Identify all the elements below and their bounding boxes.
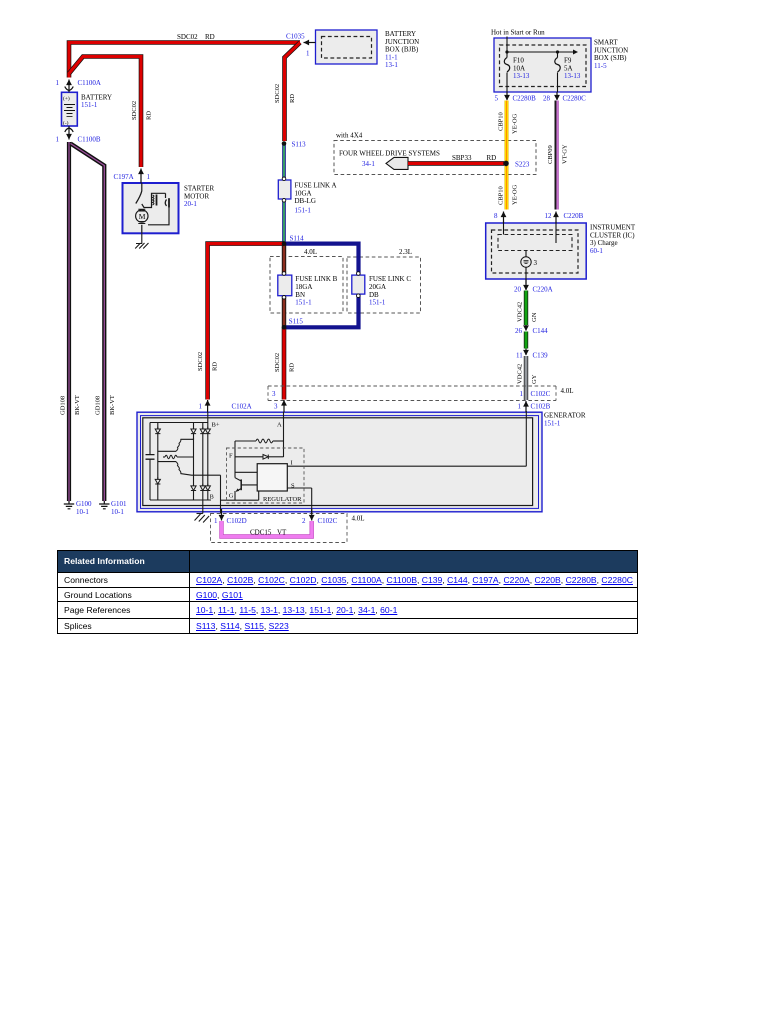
svg-text:SDC02: SDC02 — [197, 352, 204, 371]
svg-text:CBP10: CBP10 — [498, 112, 505, 131]
svg-text:151-1: 151-1 — [295, 206, 312, 214]
svg-text:3: 3 — [274, 403, 278, 411]
svg-text:SDC02: SDC02 — [177, 33, 198, 41]
svg-text:12: 12 — [545, 212, 553, 220]
BJB label — [385, 30, 419, 69]
svg-text:C1100B: C1100B — [78, 136, 101, 144]
svg-text:4.0L: 4.0L — [304, 248, 317, 256]
svg-text:8: 8 — [494, 212, 498, 220]
svg-text:F: F — [229, 453, 233, 460]
generator field coil and regulator wires — [203, 411, 527, 514]
svg-text:C144: C144 — [533, 327, 549, 335]
svg-text:10GA: 10GA — [295, 189, 312, 197]
svg-text:S115: S115 — [289, 318, 304, 326]
svg-text:JUNCTION: JUNCTION — [385, 38, 419, 46]
svg-text:151-1: 151-1 — [369, 299, 386, 307]
svg-text:5: 5 — [495, 95, 499, 103]
svg-text:REGULATOR: REGULATOR — [263, 496, 302, 503]
svg-text:GN: GN — [531, 312, 538, 322]
wire DB loop S114 to fuse link C to S115 — [284, 244, 359, 328]
svg-text:RD: RD — [289, 94, 296, 103]
connector C102A pin 3 — [281, 400, 287, 412]
related information table — [57, 550, 638, 634]
svg-text:11: 11 — [516, 352, 523, 360]
svg-text:C102B: C102B — [531, 403, 551, 411]
svg-text:1: 1 — [147, 173, 151, 181]
svg-text:FUSE LINK B: FUSE LINK B — [295, 275, 337, 283]
svg-text:C220A: C220A — [533, 286, 553, 294]
battery B box — [62, 92, 78, 126]
svg-text:3: 3 — [534, 259, 538, 267]
generator terminal labels — [210, 422, 295, 501]
svg-text:MOTOR: MOTOR — [184, 192, 209, 200]
svg-text:20GA: 20GA — [369, 283, 386, 291]
connector C1100A — [65, 80, 73, 93]
svg-text:Hot in Start or Run: Hot in Start or Run — [491, 29, 545, 37]
svg-text:10-1: 10-1 — [76, 508, 89, 516]
regulator diode — [263, 455, 268, 460]
svg-text:151-1: 151-1 — [81, 101, 98, 109]
svg-text:C1035: C1035 — [286, 33, 305, 41]
svg-text:151-1: 151-1 — [544, 419, 561, 427]
instrument cluster box — [486, 223, 587, 279]
svg-text:18GA: 18GA — [295, 283, 312, 291]
svg-text:A: A — [277, 422, 282, 429]
regulator dashed box — [227, 448, 305, 503]
svg-text:60-1: 60-1 — [590, 247, 603, 255]
svg-text:10A: 10A — [513, 64, 525, 72]
svg-text:20-1: 20-1 — [184, 200, 197, 208]
svg-text:RD: RD — [146, 111, 153, 120]
svg-text:SMART: SMART — [594, 39, 618, 47]
ground G100 — [64, 500, 92, 516]
battery junction box BJB — [316, 30, 378, 64]
svg-text:G: G — [229, 493, 234, 500]
connector C102C bottom — [309, 509, 315, 521]
svg-text:CBP09: CBP09 — [547, 145, 554, 164]
svg-text:DB: DB — [369, 291, 379, 299]
connector C144 — [523, 325, 529, 331]
svg-text:26: 26 — [515, 327, 523, 335]
connector C197A — [138, 169, 144, 184]
svg-text:1: 1 — [306, 50, 310, 58]
wire CBP09 VT SJB to IC — [554, 101, 558, 210]
svg-text:FUSE LINK C: FUSE LINK C — [369, 275, 411, 283]
splice S223 — [503, 161, 530, 169]
svg-text:F9: F9 — [564, 57, 572, 65]
connector C2280B — [504, 92, 510, 101]
IC label — [590, 224, 636, 255]
svg-text:F10: F10 — [513, 57, 524, 65]
svg-text:FOUR WHEEL DRIVE SYSTEMS: FOUR WHEEL DRIVE SYSTEMS — [339, 150, 440, 158]
svg-text:B+: B+ — [212, 422, 220, 429]
generator label — [544, 412, 586, 428]
connector C1035 — [304, 40, 316, 46]
svg-text:SDC02: SDC02 — [131, 101, 138, 120]
IC internal wires — [504, 222, 557, 285]
starter ground — [135, 233, 148, 248]
svg-text:S114: S114 — [290, 235, 305, 243]
svg-text:13-13: 13-13 — [513, 72, 530, 80]
wire GN C144 to C139 — [524, 332, 528, 349]
wire SDC02 RD battery to BJB — [69, 43, 300, 78]
svg-text:3: 3 — [272, 390, 276, 398]
svg-text:11-1: 11-1 — [385, 53, 398, 61]
svg-text:BOX (SJB): BOX (SJB) — [594, 54, 627, 62]
4.0L dashed box at fuse link B — [270, 248, 343, 313]
svg-text:28: 28 — [543, 95, 551, 103]
IC pin 8 arrow — [501, 212, 507, 224]
wire VDC42 GN IC to C144 — [524, 291, 528, 326]
svg-text:2: 2 — [302, 517, 306, 525]
wire SDC02 RD branch to starter — [69, 57, 141, 168]
svg-text:STARTER: STARTER — [184, 185, 214, 193]
svg-text:C197A: C197A — [114, 173, 134, 181]
fuse F10 — [504, 52, 530, 92]
svg-text:2.3L: 2.3L — [399, 248, 412, 256]
starter motor box — [123, 183, 179, 233]
svg-text:13-13: 13-13 — [564, 72, 581, 80]
generator box — [137, 412, 542, 512]
svg-text:C1100A: C1100A — [78, 79, 101, 87]
SJB internal feed wire — [507, 37, 573, 53]
svg-text:G100: G100 — [76, 500, 92, 508]
starter motor label — [184, 185, 214, 209]
svg-text:SDC02: SDC02 — [274, 353, 281, 372]
fuse link A — [278, 177, 336, 214]
svg-text:C2280B: C2280B — [513, 95, 537, 103]
svg-text:DB-LG: DB-LG — [295, 197, 316, 205]
svg-text:C102D: C102D — [227, 517, 247, 525]
svg-text:1: 1 — [520, 390, 524, 398]
svg-text:11-5: 11-5 — [594, 62, 607, 70]
svg-text:VDC42: VDC42 — [517, 302, 524, 322]
svg-text:CLUSTER (IC): CLUSTER (IC) — [590, 231, 635, 239]
wire DB-LG S113 to fuse link A to S114 — [282, 143, 286, 244]
connector C139 — [523, 349, 529, 356]
svg-text:VT: VT — [277, 529, 287, 537]
node C102C label — [520, 390, 551, 398]
connector C2280C — [554, 92, 560, 101]
svg-text:RD: RD — [205, 33, 215, 41]
svg-text:I: I — [291, 460, 293, 467]
starter motor internals — [136, 183, 169, 233]
svg-text:(-): (-) — [63, 120, 69, 127]
wire SDC02 RD BJB to S113 — [285, 43, 301, 142]
svg-text:G101: G101 — [111, 500, 127, 508]
svg-text:20: 20 — [514, 286, 522, 294]
transistor emitter arrow — [236, 488, 239, 491]
svg-text:FUSE LINK A: FUSE LINK A — [295, 182, 337, 190]
connector C102A pin 1 — [205, 400, 211, 412]
wire SBP33 RD 4x4 to S223 — [408, 161, 504, 166]
svg-text:4.0L: 4.0L — [352, 515, 365, 523]
svg-text:JUNCTION: JUNCTION — [594, 46, 628, 54]
wire VDC42 GY C139 to C102B — [524, 356, 528, 400]
svg-text:C102C: C102C — [531, 390, 551, 398]
svg-text:C102C: C102C — [318, 517, 338, 525]
svg-text:1: 1 — [214, 517, 218, 525]
svg-text:RD: RD — [487, 154, 497, 162]
svg-text:C220B: C220B — [564, 212, 584, 220]
svg-text:YE-OG: YE-OG — [512, 113, 519, 134]
svg-text:YE-OG: YE-OG — [512, 184, 519, 205]
svg-text:BK-VT: BK-VT — [74, 395, 81, 415]
2.3L dashed box at fuse link C — [347, 248, 421, 313]
svg-text:34-1: 34-1 — [362, 160, 375, 168]
smart junction box SJB — [494, 38, 591, 92]
svg-text:M: M — [139, 212, 146, 221]
fuse link B — [278, 272, 338, 307]
charge indicator — [521, 257, 538, 267]
fuse F9 — [555, 52, 581, 92]
connector C102D — [219, 509, 225, 521]
svg-text:BN: BN — [295, 291, 305, 299]
svg-text:C102A: C102A — [232, 403, 252, 411]
svg-text:SDC02: SDC02 — [274, 84, 281, 103]
svg-text:with 4X4: with 4X4 — [336, 132, 363, 140]
4.0L dashed rows above generator — [268, 386, 574, 401]
svg-text:S223: S223 — [515, 161, 530, 169]
regulator box — [257, 464, 287, 491]
fuse link C — [352, 272, 412, 307]
svg-text:13-1: 13-1 — [385, 61, 398, 69]
connector C102B — [523, 401, 529, 412]
svg-text:1: 1 — [56, 136, 60, 144]
splice S113 — [282, 141, 306, 149]
page reference arrow 34-1 — [362, 157, 408, 169]
svg-text:C2280C: C2280C — [563, 95, 587, 103]
wire SDC02 RD S114 to C102A — [208, 244, 284, 400]
generator ground — [195, 514, 210, 523]
svg-text:C139: C139 — [533, 352, 549, 360]
svg-text:GY: GY — [531, 374, 538, 384]
svg-text:RD: RD — [212, 362, 219, 371]
svg-text:GD108: GD108 — [60, 396, 67, 415]
svg-text:VDC42: VDC42 — [517, 364, 524, 384]
wire BN S114 to fuse link B to S115 — [282, 244, 286, 328]
wire CBP10 YE-OG SJB to S223 — [505, 101, 509, 210]
wire GD108 BK-VT C1100B to G100 — [67, 142, 71, 501]
connector C220A — [523, 279, 529, 291]
svg-text:GENERATOR: GENERATOR — [544, 412, 586, 420]
wire SDC02 RD S115 to C102A pin3 — [282, 327, 287, 399]
battery label — [81, 94, 112, 110]
svg-text:CDC15: CDC15 — [250, 529, 272, 537]
svg-text:GD108: GD108 — [95, 396, 102, 415]
svg-text:SBP33: SBP33 — [452, 154, 472, 162]
svg-text:5A: 5A — [564, 64, 573, 72]
ground G101 — [99, 500, 127, 516]
splice S114 — [282, 235, 304, 246]
svg-text:1: 1 — [518, 403, 522, 411]
IC pin 12 arrow C220B — [553, 212, 559, 224]
svg-text:1: 1 — [199, 403, 203, 411]
svg-text:S113: S113 — [292, 141, 307, 149]
svg-text:BK-VT: BK-VT — [109, 395, 116, 415]
4.0L dashed box at CDC15 — [211, 514, 365, 543]
connector C1100B — [65, 126, 73, 140]
svg-text:BATTERY: BATTERY — [385, 30, 416, 38]
svg-text:1: 1 — [56, 79, 60, 87]
svg-text:INSTRUMENT: INSTRUMENT — [590, 224, 636, 232]
generator stator and rectifier — [146, 423, 221, 514]
svg-text:VT-GY: VT-GY — [562, 144, 569, 164]
splice S115 — [282, 318, 304, 330]
svg-text:3) Charge: 3) Charge — [590, 239, 618, 247]
svg-text:10-1: 10-1 — [111, 508, 124, 516]
wire GD108 BK-VT C1100B to G101 — [71, 144, 105, 502]
wire CDC15 VT C102D to C102C — [222, 521, 312, 537]
svg-text:CBP10: CBP10 — [498, 186, 505, 205]
svg-text:(+): (+) — [63, 95, 70, 102]
svg-text:4.0L: 4.0L — [561, 387, 574, 395]
svg-text:RD: RD — [289, 363, 296, 372]
svg-text:BOX (BJB): BOX (BJB) — [385, 46, 419, 54]
4x4 dashed option box — [334, 132, 536, 175]
rectifier diodes — [155, 427, 210, 491]
svg-text:B: B — [210, 495, 214, 501]
SJB label — [594, 39, 628, 70]
svg-text:151-1: 151-1 — [295, 299, 312, 307]
